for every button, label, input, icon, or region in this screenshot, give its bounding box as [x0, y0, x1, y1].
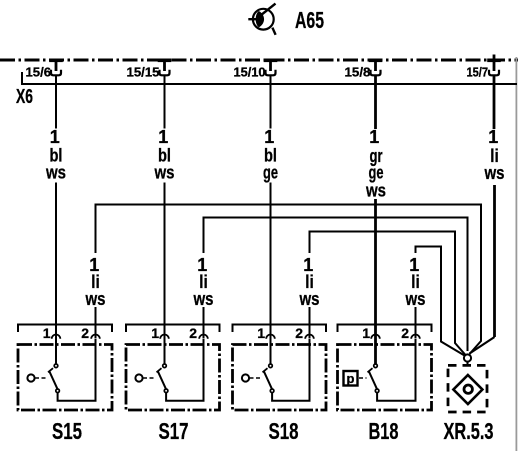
svg-text:1: 1 — [362, 325, 370, 341]
wire w1 (15/6 to S15 pin1) — [55, 75, 57, 364]
svg-text:2: 2 — [189, 325, 197, 341]
pin 15/7 — [487, 55, 501, 76]
svg-text:ws: ws — [299, 289, 320, 309]
svg-text:p: p — [347, 371, 355, 386]
svg-text:ws: ws — [365, 181, 386, 201]
svg-text:1: 1 — [43, 325, 51, 341]
svg-text:ws: ws — [45, 163, 66, 183]
svg-text:2: 2 — [295, 325, 303, 341]
svg-text:ws: ws — [193, 289, 214, 309]
wire w4 (15/8 to B18 pin1, bold) — [374, 75, 377, 364]
svg-text:1: 1 — [264, 127, 274, 147]
right edge scan border — [515, 57, 517, 451]
wire w3 (15/10 to S18 pin1) — [270, 75, 272, 364]
svg-text:15/15: 15/15 — [127, 66, 160, 80]
svg-text:1: 1 — [257, 325, 265, 341]
svg-text:ws: ws — [405, 289, 426, 309]
switch S17 — [126, 325, 220, 411]
svg-text:1: 1 — [488, 127, 498, 147]
svg-text:XR.5.3: XR.5.3 — [444, 418, 494, 444]
svg-text:S18: S18 — [269, 418, 299, 444]
svg-text:2: 2 — [401, 325, 409, 341]
svg-text:1: 1 — [151, 325, 159, 341]
switch S18 — [233, 325, 327, 411]
svg-text:2: 2 — [81, 325, 89, 341]
wire node to XR.5.3 — [467, 362, 469, 366]
svg-text:15/10: 15/10 — [234, 66, 266, 80]
svg-text:15/6: 15/6 — [26, 66, 52, 80]
wire from S15 pin2 to XR.5.3 node — [96, 205, 482, 355]
wire w5 (15/7 to XR.5.3, bold) — [470, 75, 495, 353]
svg-text:S15: S15 — [52, 418, 82, 444]
pin 15/10 — [264, 60, 278, 75]
junction node at XR.5.3 — [464, 354, 471, 361]
svg-text:ws: ws — [154, 163, 175, 183]
wire from S17 pin2 to XR.5.3 node — [204, 218, 468, 352]
wire w2 (15/15 to S17 pin1) — [164, 75, 166, 364]
svg-text:15/7: 15/7 — [467, 66, 489, 80]
svg-text:S17: S17 — [159, 418, 189, 444]
control unit A65 symbol — [248, 4, 275, 35]
dash-dot ignition bus line (circuit 15) — [0, 59, 518, 62]
pin 15/6 — [49, 60, 63, 75]
wire from B18 pin2 to XR.5.3 node — [416, 247, 465, 356]
pin 15/15 — [158, 60, 172, 75]
svg-text:1: 1 — [50, 127, 60, 147]
connector XR.5.3 — [448, 365, 487, 412]
svg-text:ge: ge — [263, 163, 278, 183]
pin 15/8 — [369, 60, 383, 75]
svg-text:15/8: 15/8 — [345, 66, 371, 80]
switch S15 — [18, 325, 112, 411]
svg-text:ws: ws — [484, 163, 505, 183]
svg-text:1: 1 — [158, 127, 168, 147]
connector strip X6 — [22, 72, 517, 84]
svg-text:ws: ws — [85, 289, 106, 309]
svg-text:A65: A65 — [295, 7, 324, 33]
svg-text:1: 1 — [369, 127, 379, 147]
svg-text:X6: X6 — [16, 86, 33, 108]
wire from S18 pin2 to XR.5.3 node — [310, 232, 466, 356]
pressure switch B18 — [338, 325, 432, 411]
svg-text:B18: B18 — [369, 418, 399, 444]
svg-text:ge: ge — [369, 163, 384, 183]
